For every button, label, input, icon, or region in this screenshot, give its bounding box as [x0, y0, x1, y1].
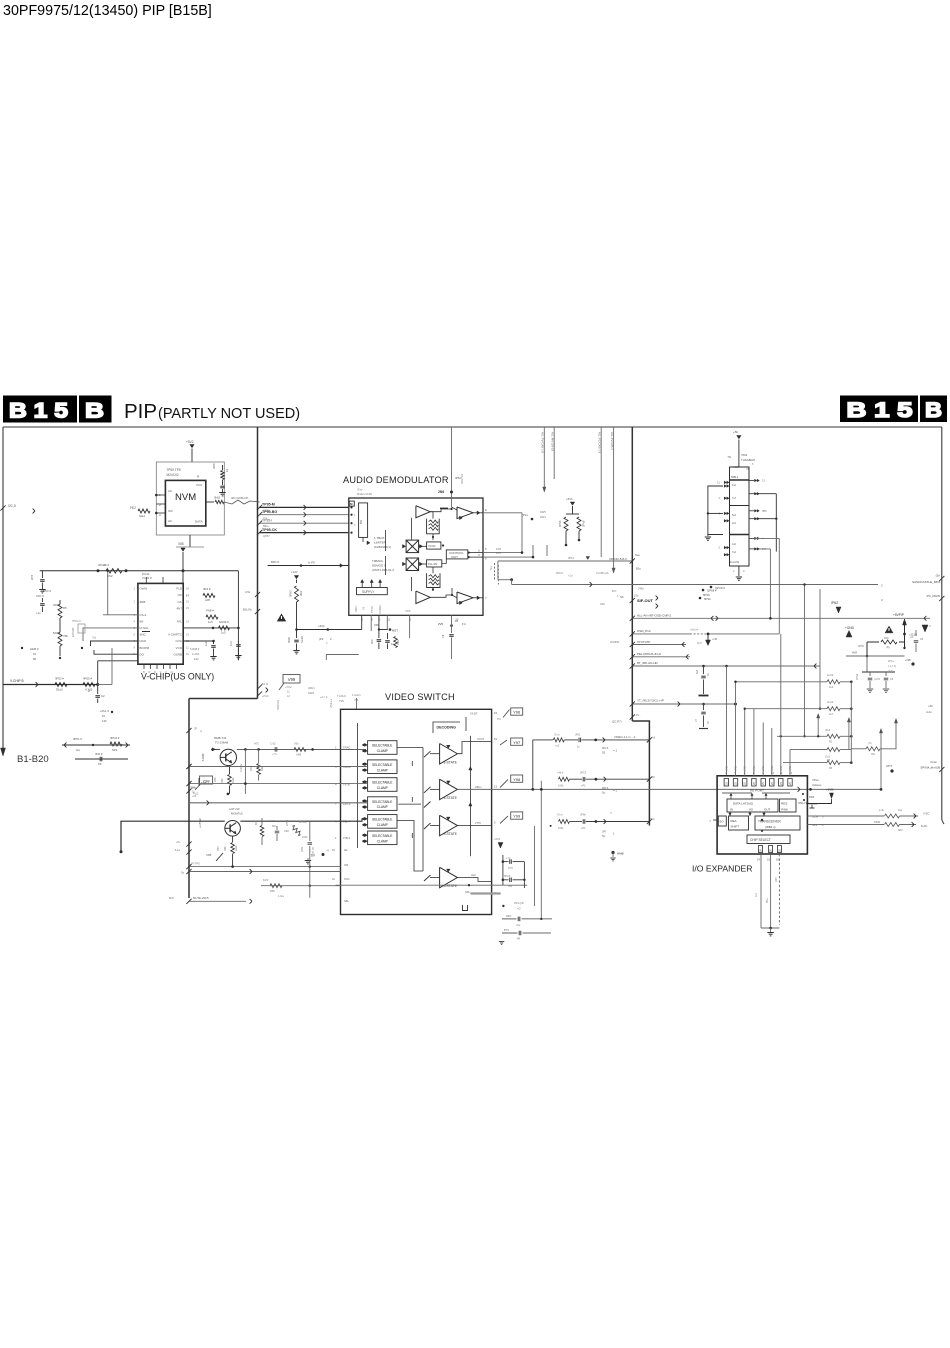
svg-text:+5Vb: +5Vb [566, 497, 573, 501]
svg-text:UNU Y: UNU Y [798, 801, 807, 805]
net stubs at divider into video switch [257, 684, 262, 689]
svg-text:3PN4 #: 3PN4 # [110, 736, 120, 740]
node labels left of chain [710, 586, 713, 589]
svg-text:(IRB2.u): (IRB2.u) [765, 825, 775, 829]
vertical wires from IO pins up [735, 682, 737, 776]
svg-text:7PC2 #: 7PC2 # [72, 619, 81, 623]
resistor U52 on supply bus [106, 569, 122, 573]
svg-text:T9BADL: T9BADL [372, 559, 384, 563]
svg-text:PC41: PC41 [142, 572, 150, 576]
svg-text:3R2: 3R2 [898, 829, 903, 832]
svg-text:B R D V C D: B R D V C D [143, 670, 174, 674]
SUPPLY box [357, 588, 388, 595]
wires to Y-SC / 8-AV labels [900, 815, 919, 817]
caps cluster under demod pins [378, 630, 380, 639]
svg-text:Os/IN: Os/IN [140, 587, 148, 591]
svg-text:3P93: 3P93 [289, 590, 293, 597]
svg-text:15: 15 [494, 711, 497, 715]
svg-text:VTXT-PIP: VTXT-PIP [637, 640, 650, 644]
svg-text:(K2B1984(1): (K2B1984(1) [374, 545, 391, 549]
badge B15B top-left [3, 396, 77, 423]
svg-text:13: 13 [494, 785, 497, 789]
svg-text:5PSb: 5PSb [703, 593, 710, 597]
svg-text:OUT: OUT [764, 808, 771, 812]
svg-text:1Pb+: 1Pb+ [888, 660, 894, 663]
svg-text:NP1: NP1 [112, 748, 118, 752]
wire A1 to A3 [430, 509, 451, 512]
frame left border with arrow B1-B20 [2, 427, 4, 748]
svg-text:H75: H75 [254, 742, 259, 746]
capacitor 2C52 on bus left end [41, 571, 43, 578]
resistor row y=681.8 [736, 681, 828, 683]
wire to demod pin 9 [297, 629, 362, 631]
svg-text:OSNB: OSNB [173, 652, 182, 656]
svg-text:+5VPIP: +5VPIP [893, 613, 904, 617]
stub down from row y=866 [309, 867, 311, 898]
svg-text:TO-236AB: TO-236AB [215, 741, 228, 745]
svg-text:GN2: GN2 [762, 765, 765, 771]
svg-text:3x4b: 3x4b [232, 777, 235, 783]
RDS box [780, 799, 797, 812]
svg-text:5Na2+V128: 5Na2+V128 [357, 492, 372, 496]
svg-text:6u8: 6u8 [696, 669, 699, 674]
wire crossing divider y=821.5 [559, 820, 570, 824]
svg-text:DATA: DATA [195, 520, 203, 524]
svg-text:C/L: C/L [177, 600, 182, 604]
svg-text:NC36: NC36 [300, 636, 304, 643]
svg-text:SHIFT: SHIFT [731, 825, 740, 829]
capacitor +7u right of V-chip [213, 641, 215, 644]
resistor 3R74 right [851, 748, 866, 750]
svg-text:B fc: B fc [612, 589, 617, 593]
svg-text:7u4: 7u4 [732, 551, 737, 554]
svg-text:5r: 5r [87, 690, 91, 692]
svg-text:ALL-MV-2/B-18: ALL-MV-2/B-18 [550, 432, 554, 452]
resistor 5P17 on V-chip bus [55, 683, 67, 687]
svg-text:I/O PORT: I/O PORT [750, 789, 764, 793]
IO expander bottom pin boxes [759, 846, 763, 853]
video switch bottom internal wire [336, 884, 528, 886]
svg-text:+NB: +NB [905, 658, 911, 662]
svg-text:2-3k: 2-3k [879, 809, 885, 812]
component C1 outline [78, 624, 85, 633]
svg-text:HEM #: HEM # [30, 647, 39, 651]
svg-text:V5: V5 [362, 606, 366, 610]
resistor pair bottom right [885, 814, 900, 818]
wire OVC row [183, 640, 213, 642]
svg-text:= ξ: = ξ [613, 749, 618, 753]
svg-text:CS-2: CS-2 [140, 613, 147, 617]
resistor 3R62 right of NVM [222, 465, 224, 470]
svg-text:PINK: PINK [781, 808, 788, 812]
bias resistor right of Q1 [258, 749, 260, 763]
svg-text:5-1a: 5-1a [175, 848, 181, 852]
svg-text:VB5: VB5 [217, 846, 220, 851]
wire to V-chip pin 8 [94, 650, 138, 654]
svg-text:+2b: +2b [192, 795, 197, 798]
svg-text:I/O EXPANDER: I/O EXPANDER [692, 864, 753, 874]
resistor V5u on Q1 row [294, 747, 306, 751]
wire VIDEO-1.1 crossing divider y=739.9 [533, 739, 553, 741]
svg-text:DECODING: DECODING [437, 725, 457, 729]
demod input pin marks [350, 506, 352, 508]
svg-text:-5.8NB: -5.8NB [201, 753, 205, 762]
svg-text:FLD: FLD [176, 587, 183, 591]
svg-text:C98: C98 [284, 830, 289, 833]
svg-text:(2C P7): (2C P7) [612, 720, 622, 724]
svg-text:16: 16 [776, 858, 779, 862]
SANDCASTLE label at right frame [939, 576, 944, 581]
svg-text:1-Ga: 1-Ga [278, 894, 284, 898]
dark wire from Q2 collector to clamp5 [240, 819, 366, 821]
svg-text:V85: V85 [178, 542, 184, 546]
svg-text:11: 11 [387, 618, 390, 622]
IC 7610 audio demodulator block [349, 498, 483, 615]
svg-text:5A5 #: 5A5 # [53, 631, 61, 635]
net MUTE-29C at divider [189, 900, 246, 902]
svg-text:5PSb: 5PSb [704, 597, 711, 601]
wire row y=866.6 bottom [189, 866, 238, 868]
svg-text:VODEC: VODEC [378, 605, 382, 614]
svg-text:RD5: RD5 [809, 795, 815, 799]
svg-text:DW1: DW1 [540, 515, 546, 519]
svg-text:(P1s: (P1s [522, 513, 528, 517]
svg-text:PEL.PROJ/LJN-JI: PEL.PROJ/LJN-JI [637, 652, 661, 656]
svg-text:B1 (2: B1 (2 [262, 682, 269, 686]
svg-text:3-2-B5 (2A: 3-2-B5 (2A [596, 571, 609, 575]
svg-text:(KMT1.91RJ)1.2: (KMT1.91RJ)1.2 [372, 568, 394, 572]
svg-text:MMB-T4b: MMB-T4b [214, 736, 227, 740]
net Y98 boxed label left [200, 776, 213, 784]
wire down from 3R27 left [866, 642, 868, 656]
row into clamp2 from divider [189, 766, 368, 768]
svg-text:VCU: VCU [196, 483, 202, 487]
svg-text:GE1: GE1 [139, 514, 145, 518]
IO expander left pin [713, 819, 717, 821]
wire IC chain pin to OSD riser [754, 537, 779, 539]
svg-text:9Bu: 9Bu [766, 898, 769, 903]
svg-text:XX.BT: XX.BT [470, 712, 478, 716]
svg-text:IN9: IN9 [344, 863, 349, 867]
svg-text:3R6: 3R6 [212, 463, 216, 469]
amplifier A2 inside demod [416, 591, 430, 604]
svg-text:+2 = 2: +2 = 2 [320, 695, 328, 699]
NVM pin stubs and junctions [156, 494, 165, 496]
svg-text:3P5b: 3P5b [858, 644, 865, 648]
svg-text:ALL-PC/CAS-2.8: ALL-PC/CAS-2.8 [597, 432, 601, 454]
svg-text:DO5: DO5 [496, 548, 502, 551]
REA SHIFT box [729, 816, 749, 830]
svg-text:5kC: 5kC [272, 825, 277, 828]
svg-text:UNIT: UNIT [451, 555, 458, 559]
svg-text:2P5u: 2P5u [286, 820, 289, 826]
mixer input wire B9O [268, 565, 349, 567]
svg-text:R7 PC: R7 PC [312, 846, 315, 854]
svg-text:2N6: 2N6 [438, 490, 444, 494]
svg-text:7u7: 7u7 [732, 497, 737, 500]
svg-text:XPos: XPos [812, 778, 819, 782]
resistor 3R56 left column lower [58, 632, 62, 646]
svg-text:30PF9975/12(13450) PIP [B15B]: 30PF9975/12(13450) PIP [B15B] [3, 3, 212, 19]
demod input buffer box [359, 503, 368, 538]
wire A2 to A4 [430, 595, 457, 598]
resistor row y=762.6 [783, 762, 827, 764]
ground under IO expander [767, 932, 773, 934]
svg-text:DO: DO [140, 652, 145, 656]
svg-text:P6: P6 [98, 762, 102, 766]
svg-text:3-4R5u: 3-4R5u [240, 763, 243, 772]
svg-text:Pnan: Pnan [930, 760, 937, 764]
resistor 4X05 on V-chip bus [83, 683, 95, 687]
svg-text:10: 10 [455, 619, 459, 623]
svg-text:A05: A05 [205, 598, 210, 602]
svg-text:GN69 #: GN69 # [219, 620, 229, 624]
svg-text:(P2: (P2 [319, 637, 324, 641]
wire bus to gray branch [98, 684, 112, 686]
bus wire OSD_P14 y=633.9 [632, 633, 690, 635]
svg-text:VIDEO-1.1-C...-2: VIDEO-1.1-C...-2 [614, 735, 636, 739]
Q1 collector row to clamp1 [237, 748, 366, 750]
net stubs on divider x=189 [186, 728, 191, 733]
pin 6 wire down [370, 615, 372, 631]
svg-text:T9N: T9N [339, 699, 344, 703]
boxed net label V99 [283, 675, 300, 684]
buffer output arrow [362, 537, 364, 542]
ground at row y=866 [305, 860, 311, 862]
svg-text:DW5: DW5 [540, 510, 546, 514]
PLL box [427, 560, 442, 567]
svg-text:2TTb: 2TTb [475, 821, 482, 825]
selectable clamp boxes [368, 741, 397, 755]
svg-text:3-STATE: 3-STATE [444, 884, 458, 888]
junction dots left column [21, 647, 23, 649]
svg-text:2V5: 2V5 [438, 622, 443, 626]
resistor B-92 row y=885.7 [261, 885, 341, 887]
svg-text:VCO2: VCO2 [428, 544, 436, 548]
svg-text:RDS: RDS [781, 802, 787, 806]
slant connectors to boxed labels [503, 710, 510, 718]
6V node label [322, 853, 325, 856]
resistor 3P93 below demod [295, 586, 299, 602]
svg-text:OVC: OVC [175, 639, 182, 643]
capacitor 1C2 on loop [237, 641, 239, 643]
resistor row y=749.5 [800, 749, 827, 751]
svg-text:AUDIO DEMODULATOR: AUDIO DEMODULATOR [343, 475, 449, 485]
enable bus for 3-state amps [469, 736, 471, 856]
svg-text:(Pu2: (Pu2 [825, 729, 831, 732]
svg-text:5u: 5u [602, 834, 606, 838]
clamp1 output wire [397, 747, 423, 749]
svg-text:I/O: I/O [749, 808, 754, 812]
svg-text:R6b: R6b [224, 846, 227, 851]
svg-text:+12V: +12V [291, 570, 298, 574]
clamp input bus inside block [357, 723, 359, 848]
svg-text:2C5: 2C5 [30, 574, 34, 580]
svg-text:5BBL2: 5BBL2 [731, 476, 739, 479]
svg-text:TP95-I: TP95-I [262, 519, 272, 523]
svg-text:8-AV.: 8-AV. [921, 824, 928, 828]
lower right sub parts TPS [502, 905, 504, 907]
capacitor 3P90 below demod [296, 630, 298, 639]
svg-text:100k: 100k [558, 827, 564, 830]
ground under 2C5 [219, 492, 225, 494]
svg-text:3N2999: 3N2999 [610, 640, 620, 644]
IC 7620 video switch block [341, 709, 492, 914]
svg-text:SBL: SBL [344, 899, 349, 903]
ground bottom of TPS parts [499, 941, 504, 943]
DATA LATCH box [727, 799, 778, 812]
svg-text:Y98: Y98 [513, 777, 521, 782]
svg-text:Ga: Ga [76, 748, 80, 752]
IC chain right pins [749, 480, 754, 482]
V-chip internal SNC bar [142, 631, 150, 633]
section divider lower-left (x=189) [188, 699, 190, 899]
pin 11 wire down [386, 615, 388, 629]
bus wire YT_95 y=704 [632, 703, 735, 705]
wire +5VB row y=656 [846, 655, 905, 657]
svg-text:V5u: V5u [294, 742, 299, 746]
svg-text:4u7: 4u7 [829, 713, 834, 716]
wire row y=871.5 bottom [189, 871, 341, 873]
svg-text:AuU2: AuU2 [827, 701, 834, 704]
svg-text:SANDCASTLE_MP2: SANDCASTLE_MP2 [912, 580, 940, 584]
svg-text:SV3: SV3 [812, 823, 817, 827]
triangle output amps 3-STATE [440, 744, 458, 765]
svg-text:E20: E20 [194, 657, 199, 661]
svg-text:+5u: +5u [516, 924, 521, 927]
IC chain left pins with double arrows [724, 481, 726, 484]
svg-text:7C01 #: 7C01 # [142, 576, 152, 580]
wire NVM SDA down to V-chip [107, 571, 109, 615]
VCO box [427, 542, 441, 549]
wire y=580 stub to junction [498, 579, 512, 581]
svg-text:(+CN: (+CN [874, 678, 880, 681]
svg-text:DIME: DIME [874, 821, 881, 824]
svg-text:V-CHIP B: V-CHIP B [10, 679, 24, 683]
amp3 output to pin 5 [457, 825, 491, 827]
net SIF-OUT [630, 598, 635, 603]
wire crossing divider y=779.2 [559, 777, 570, 781]
svg-text:(4(): (4() [886, 645, 890, 649]
IO expander top pin boxes [724, 779, 728, 787]
demod output pin 7 bottom right [473, 597, 483, 599]
up-arrow riser x=849 [848, 722, 850, 750]
down arrow node right [922, 625, 928, 632]
svg-text:+5Vb: +5Vb [318, 624, 325, 628]
svg-text:5u: 5u [602, 791, 606, 795]
Q1 base wire with arrow [212, 748, 216, 751]
svg-text:5C: 5C [707, 673, 710, 676]
svg-text:UBU: UBU [354, 606, 358, 612]
svg-text:3P9 #: 3P9 # [556, 571, 563, 575]
svg-text:NVM: NVM [175, 492, 196, 503]
svg-text:T.ANU1: T.ANU1 [337, 694, 346, 698]
svg-text:SNC: SNC [140, 633, 147, 637]
IC 7600 NVM [165, 480, 205, 526]
svg-text:B 1 5: B 1 5 [847, 398, 913, 422]
svg-text:SELECTABLE: SELECTABLE [372, 744, 392, 748]
net wire ALL-PC/CAS-2.8 from top frame [600, 427, 602, 557]
transceiver dots [802, 793, 804, 795]
svg-text:GN2: GN2 [780, 765, 783, 771]
svg-text:X06: X06 [374, 623, 379, 627]
latch arrows [730, 795, 732, 800]
marks right of clamp boxes [411, 761, 413, 766]
svg-text:CLAMP: CLAMP [377, 749, 388, 753]
svg-text:MGMTu5: MGMTu5 [231, 812, 243, 816]
svg-text:+5b: +5b [928, 704, 933, 708]
svg-text:B1-B20: B1-B20 [17, 754, 49, 765]
svg-text:GN2: GN2 [735, 765, 738, 771]
svg-text:3P52 #: 3P52 # [55, 677, 64, 681]
svg-text:3P51 #: 3P51 # [73, 737, 82, 741]
svg-text:= ξ: = ξ [613, 789, 618, 793]
svg-text:HMB: HMB [617, 852, 624, 856]
svg-text:A2: A2 [168, 519, 172, 523]
wire L-shape below demod [326, 655, 358, 661]
svg-text:I2-SCL: I2-SCL [140, 626, 150, 630]
svg-text:5-R08 #: 5-R08 # [190, 647, 200, 651]
svg-text:+Pu1 #: +Pu1 # [100, 709, 109, 713]
clamp5 output wire [397, 821, 423, 872]
svg-text:A5: A5 [652, 736, 656, 740]
section divider step [189, 698, 258, 700]
svg-text:(5A: (5A [936, 574, 940, 578]
svg-text:SCl: SCl [168, 509, 173, 513]
svg-text:TY.5NP: TY.5NP [329, 699, 333, 708]
clamp4 output wire [398, 803, 421, 805]
capacitor C5C left column [41, 598, 43, 602]
svg-text:2R5: 2R5 [775, 877, 778, 882]
IO expander right wires SCM/SCd [807, 815, 884, 817]
resistor 1u5 (pin 4N7) [206, 615, 218, 619]
demod internal wiring [410, 518, 412, 540]
svg-text:(P51: (P51 [575, 734, 581, 737]
svg-text:SCW: SCW [812, 815, 819, 819]
dashed stub left of MONO corner [494, 563, 496, 580]
section divider centre (x=632) [631, 427, 633, 721]
svg-text:3Pb1: 3Pb1 [568, 556, 575, 560]
svg-text:IPN2: IPN2 [831, 601, 838, 605]
svg-text:3PN2: 3PN2 [856, 673, 859, 680]
svg-text:1k: 1k [225, 468, 229, 472]
svg-text:+5V2: +5V2 [186, 440, 194, 444]
svg-text:SIF-OUT: SIF-OUT [637, 598, 654, 603]
svg-text:VC5: VC5 [405, 609, 411, 613]
svg-text:CHIP SELECT: CHIP SELECT [750, 838, 771, 842]
resistor 3PN6 [577, 517, 581, 531]
svg-text:3B5: 3B5 [762, 509, 767, 513]
IC 7601 V-CHIP [138, 583, 183, 664]
svg-text:+5v: +5v [176, 840, 181, 844]
svg-text:3k62: 3k62 [214, 496, 221, 500]
svg-text:+5b: +5b [733, 430, 738, 434]
output amplifier A3 [457, 507, 473, 519]
svg-text:1.AuU1: 1.AuU1 [352, 693, 361, 697]
bus wire ALL-AV+INT-OSD y=618 [632, 617, 930, 619]
svg-text:TM: TM [497, 718, 501, 721]
V-chip bus wire at y=684.5 [3, 684, 98, 686]
svg-text:Udssso: Udssso [812, 783, 822, 787]
resistor 3R55 left column upper [58, 604, 62, 618]
svg-text:(PARTLY NOT USED): (PARTLY NOT USED) [158, 406, 300, 422]
svg-text:5Br: 5Br [620, 595, 624, 599]
svg-text:5r: 5r [478, 550, 480, 553]
bias parts right of Q2 [260, 826, 264, 837]
ground under 2C52 [39, 589, 45, 591]
svg-text:+1u: +1u [36, 611, 41, 615]
svg-text:1u5: 1u5 [221, 631, 226, 635]
